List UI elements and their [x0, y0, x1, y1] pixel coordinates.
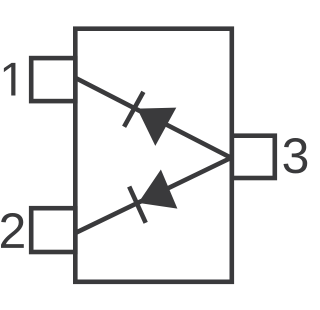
cathode bar diode D1 [124, 92, 143, 127]
pin label 2 [1, 213, 24, 248]
cathode bar diode D2 [129, 187, 146, 223]
pin label 1 [4, 63, 16, 96]
package outline (SOT-23 body) [75, 29, 232, 282]
wire pin2 to node at pin 3 [75, 157, 232, 233]
diode D2 triangle (anode at common node pin 3) [138, 170, 177, 209]
wire pin1 anode-cathode to node at pin 3 [75, 78, 232, 158]
diode D1 triangle (anode at common node pin 3) [137, 108, 176, 146]
pin 3 pad [232, 136, 275, 178]
pin 2 pad [31, 208, 75, 252]
pin label 3 [284, 138, 308, 173]
pin 1 pad [31, 58, 75, 101]
